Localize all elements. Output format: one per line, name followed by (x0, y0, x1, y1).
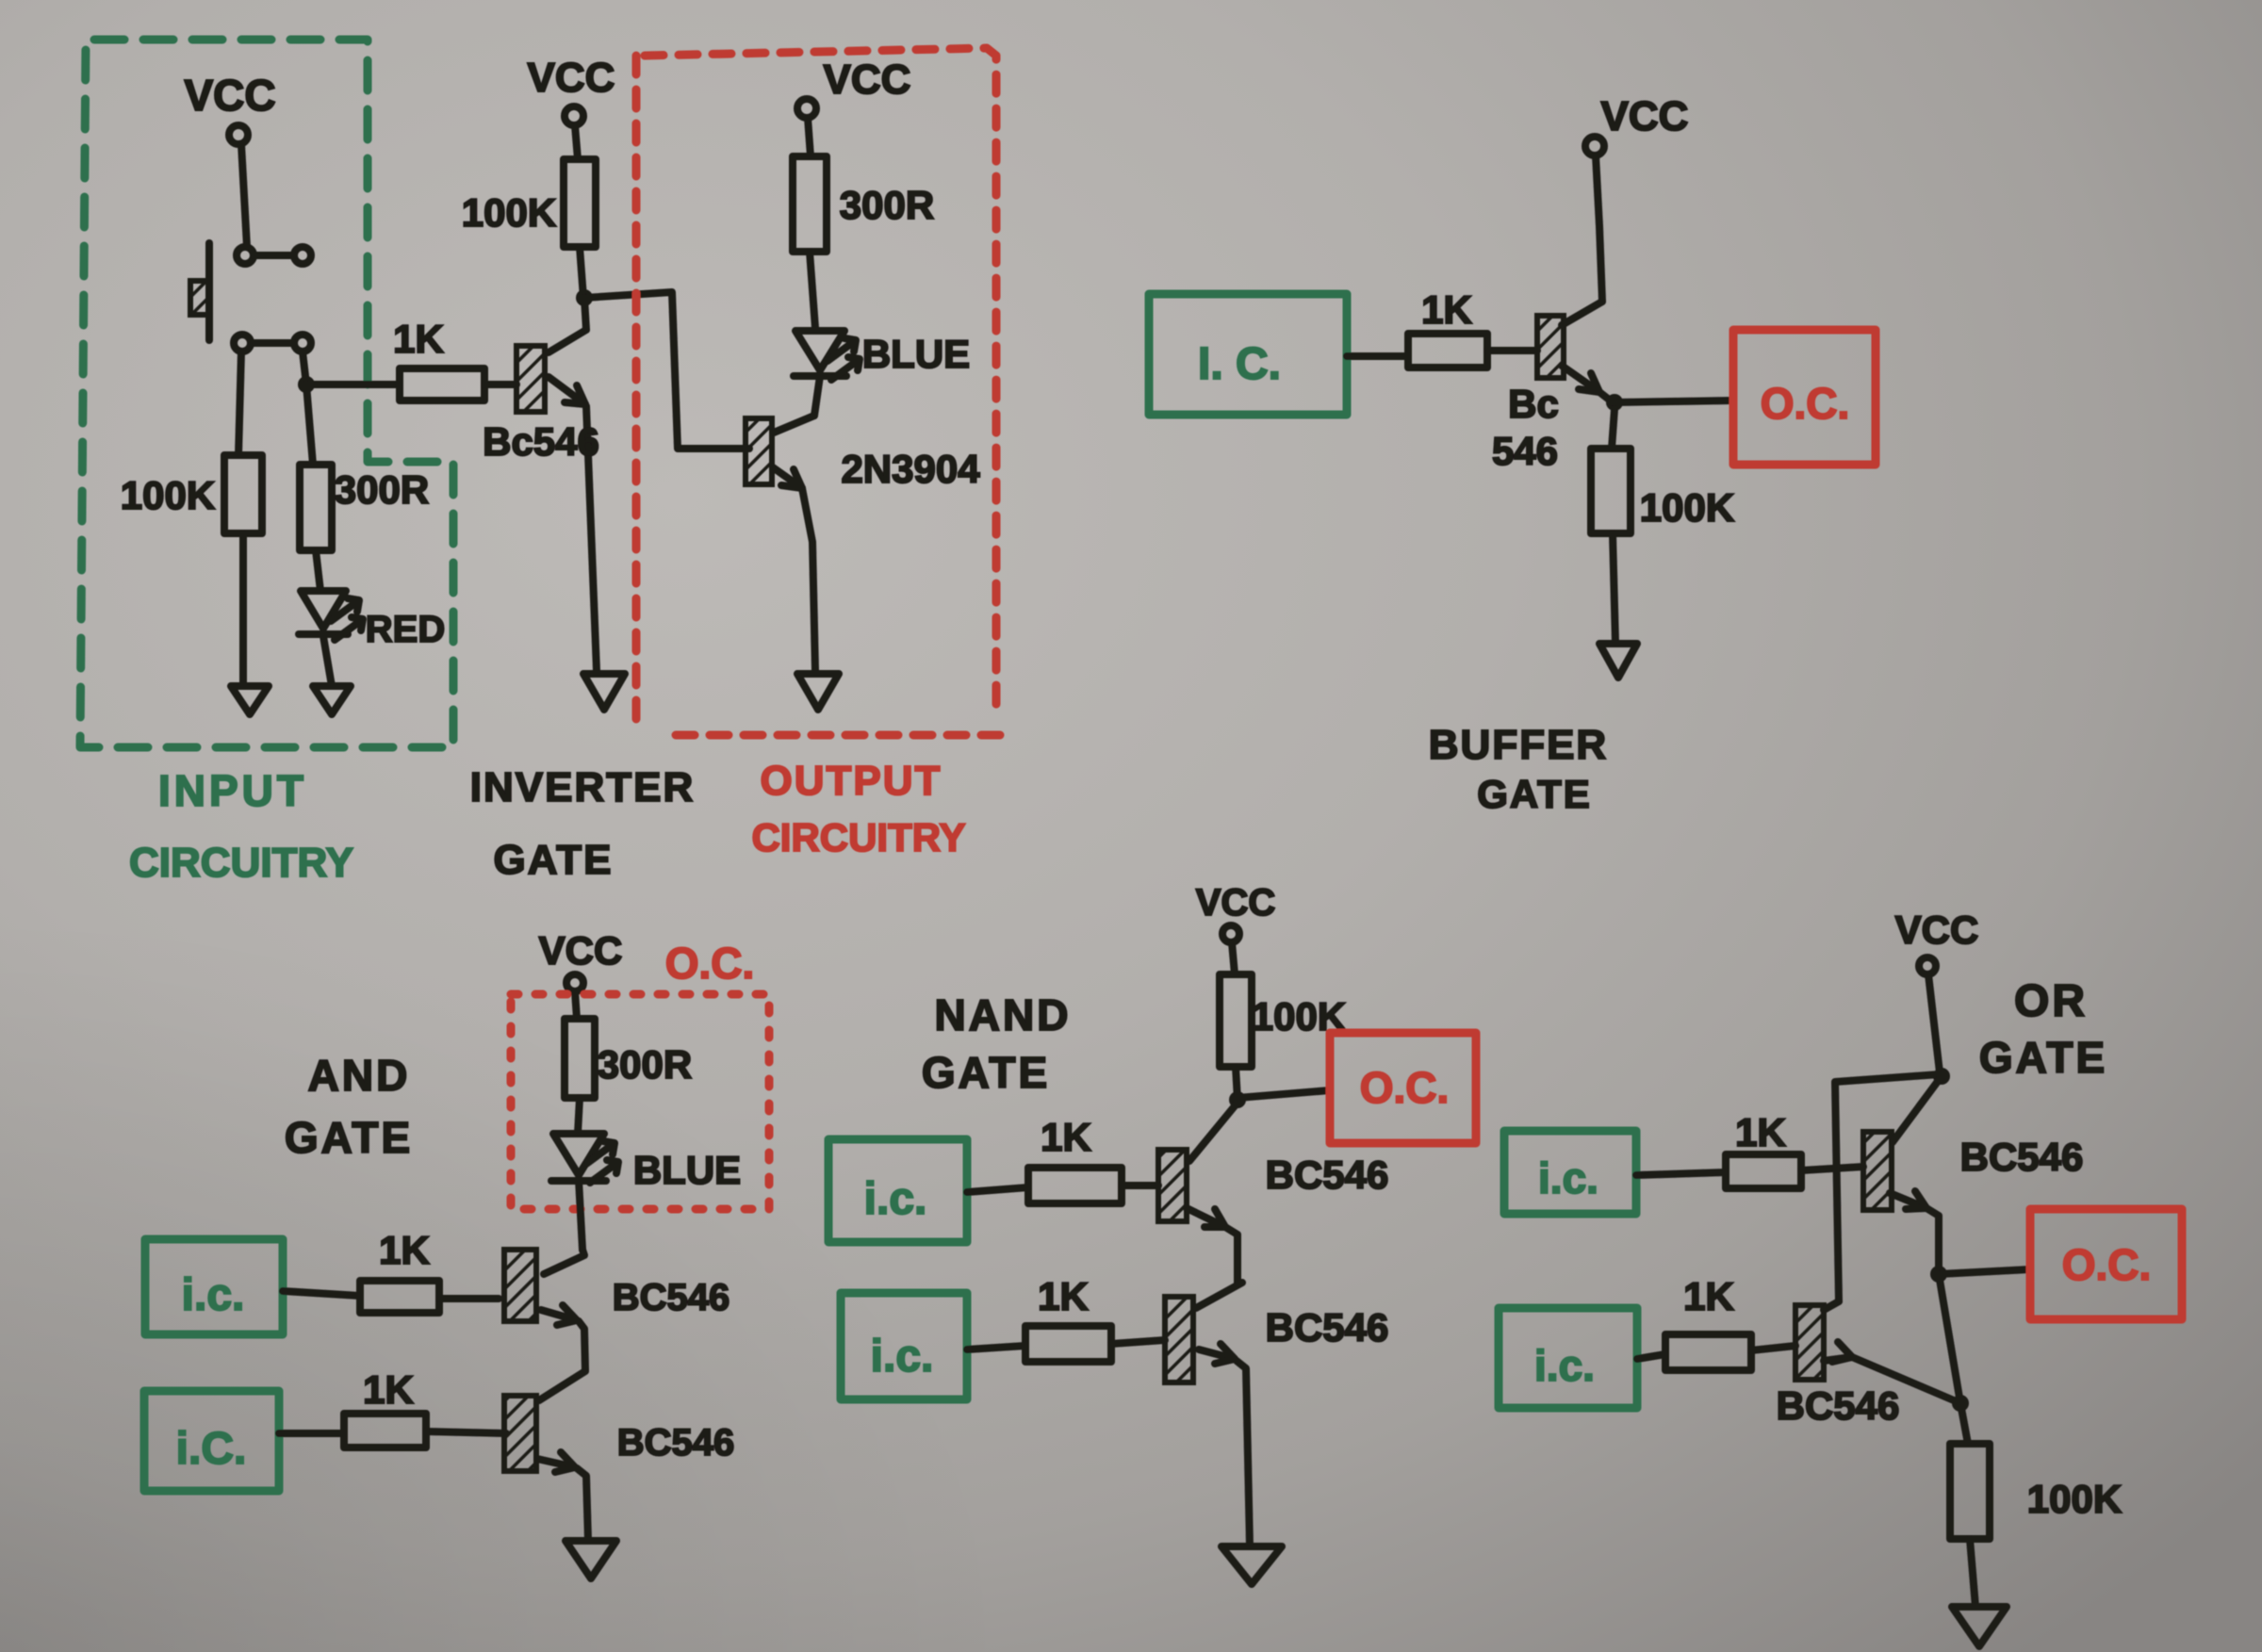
svg-text:i.C.: i.C. (176, 1424, 247, 1474)
svg-text:BUFFER: BUFFER (1429, 722, 1608, 768)
svg-text:1K: 1K (393, 317, 444, 361)
svg-text:VCC: VCC (1895, 908, 1979, 952)
svg-text:i.c.: i.c. (1534, 1341, 1595, 1390)
svg-text:GATE: GATE (285, 1113, 413, 1162)
svg-text:VCC: VCC (824, 57, 911, 103)
svg-text:300R: 300R (840, 183, 934, 227)
svg-text:300R: 300R (335, 467, 429, 512)
svg-text:1K: 1K (363, 1367, 414, 1412)
svg-text:VCC: VCC (1601, 93, 1689, 139)
svg-text:2N3904: 2N3904 (841, 447, 980, 491)
svg-text:OR: OR (2014, 976, 2088, 1026)
svg-text:1K: 1K (1683, 1274, 1734, 1318)
svg-text:1K: 1K (379, 1228, 430, 1272)
svg-text:BC546: BC546 (613, 1277, 730, 1318)
svg-text:INVERTER: INVERTER (470, 764, 695, 810)
svg-text:BLUE: BLUE (862, 332, 970, 376)
svg-text:i.c.: i.c. (1538, 1153, 1598, 1202)
svg-text:100K: 100K (462, 190, 556, 235)
svg-text:300R: 300R (598, 1042, 692, 1087)
svg-text:RED: RED (366, 609, 445, 650)
svg-text:1K: 1K (1735, 1110, 1786, 1154)
svg-text:OUTPUT: OUTPUT (761, 758, 942, 804)
svg-text:i.c.: i.c. (182, 1270, 245, 1320)
svg-text:CIRCUITRY: CIRCUITRY (129, 840, 353, 886)
svg-text:1K: 1K (1038, 1274, 1089, 1318)
svg-text:GATE: GATE (494, 837, 614, 883)
svg-text:VCC: VCC (1196, 882, 1275, 924)
svg-text:O.C.: O.C. (2062, 1240, 2152, 1289)
svg-text:O.C.: O.C. (1761, 379, 1850, 428)
svg-text:NAND: NAND (935, 990, 1072, 1039)
svg-text:AND: AND (308, 1051, 411, 1100)
svg-text:BC546: BC546 (1777, 1383, 1900, 1428)
svg-text:INPUT: INPUT (158, 766, 307, 815)
svg-text:BC546: BC546 (1960, 1135, 2084, 1179)
svg-text:GATE: GATE (1477, 772, 1592, 816)
svg-text:VCC: VCC (528, 55, 615, 101)
svg-text:VCC: VCC (539, 928, 623, 973)
svg-text:O.C.: O.C. (1360, 1063, 1450, 1112)
svg-text:i.c.: i.c. (871, 1332, 934, 1382)
svg-text:Bc: Bc (1508, 382, 1559, 426)
svg-text:GATE: GATE (922, 1048, 1050, 1097)
svg-text:Bc546: Bc546 (483, 419, 599, 464)
svg-text:CIRCUITRY: CIRCUITRY (751, 815, 965, 859)
svg-text:1K: 1K (1421, 287, 1472, 332)
svg-text:VCC: VCC (184, 71, 275, 120)
svg-text:GATE: GATE (1979, 1033, 2107, 1082)
svg-text:i.c.: i.c. (864, 1174, 927, 1224)
svg-text:100K: 100K (1640, 485, 1734, 530)
svg-text:100K: 100K (2027, 1477, 2122, 1521)
svg-text:BC546: BC546 (1266, 1305, 1389, 1349)
svg-text:O.C.: O.C. (665, 939, 755, 988)
svg-text:BC546: BC546 (1266, 1153, 1389, 1197)
svg-text:100K: 100K (121, 473, 215, 517)
svg-text:546: 546 (1492, 429, 1558, 473)
svg-text:BLUE: BLUE (633, 1148, 741, 1192)
svg-text:BC546: BC546 (617, 1422, 735, 1464)
svg-text:1K: 1K (1041, 1115, 1091, 1159)
svg-text:I. C.: I. C. (1198, 339, 1281, 389)
